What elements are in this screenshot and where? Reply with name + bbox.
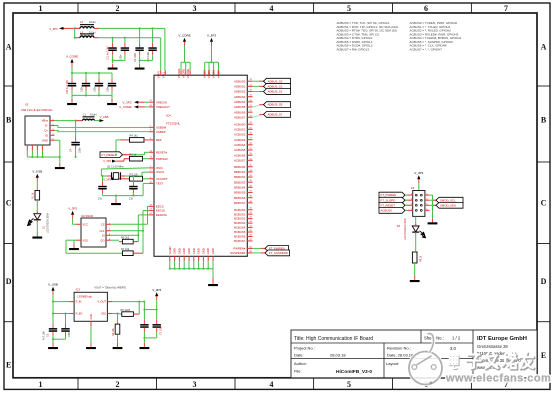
- wire P_EN rail: [52, 302, 69, 315]
- wire R1 to D1: [36, 200, 38, 214]
- IC IC2 pins: [76, 222, 111, 242]
- svg-text:C9 100n: C9 100n: [134, 52, 137, 62]
- svg-text:RESET#: RESET#: [156, 150, 167, 154]
- wire ADBUS tag 4: [253, 114, 264, 117]
- svg-text:ACBUS7 = *, *, GPIOH7: ACBUS7 = *, *, GPIOH7: [410, 47, 443, 51]
- svg-text:C11 4u7 16V: C11 4u7 16V: [107, 46, 110, 60]
- svg-text:L1: L1: [83, 113, 86, 117]
- ground cap bank A right: [135, 64, 145, 70]
- wire D2 to R9: [415, 234, 417, 251]
- wire right caps join: [144, 309, 158, 339]
- IC IC4 FT2232HL body: [154, 75, 247, 256]
- svg-text:ACBUS0: ACBUS0: [234, 122, 246, 126]
- ground right caps: [140, 343, 150, 349]
- connector K3 inner pads: [415, 194, 422, 211]
- svg-text:X3: X3: [25, 103, 29, 107]
- svg-text:DO: DO: [101, 238, 105, 242]
- ground bank B right: [107, 99, 117, 105]
- IC IC4 pin BCBUS6: [234, 234, 253, 238]
- svg-text:ADBUS3: ADBUS3: [234, 95, 246, 99]
- svg-text:R9 1k: R9 1k: [420, 255, 423, 262]
- net flag ADBUS_S2: [259, 89, 290, 95]
- svg-text:ADBUS4: ADBUS4: [234, 100, 246, 104]
- IC IC4 pin ADBUS7: [234, 115, 253, 119]
- net flag V_3P3 mini 2: [103, 177, 116, 181]
- capacitor C5: [43, 314, 58, 344]
- pin function notes column 1: [337, 21, 399, 51]
- svg-text:PWRSAV: PWRSAV: [156, 157, 168, 161]
- svg-text:VCORE: VCORE: [177, 68, 181, 78]
- wire V_USB to R1: [36, 182, 38, 191]
- svg-text:V_CORE: V_CORE: [178, 33, 190, 37]
- wire VSS to ground: [74, 240, 76, 244]
- wire V_3P3 to VCCIO pins: [205, 46, 219, 71]
- connector K3 left pin stubs: [408, 194, 413, 211]
- svg-text:E: E: [541, 351, 546, 360]
- svg-text:FT_RESET: FT_RESET: [102, 153, 117, 157]
- svg-text:V_3P3: V_3P3: [207, 33, 216, 37]
- connector X3 body: [25, 116, 50, 145]
- ground R9: [410, 276, 420, 282]
- svg-text:USB micro-B 4pin KMD3-Bu: USB micro-B 4pin KMD3-Bu: [21, 109, 53, 112]
- connector K3 right pin stubs: [425, 194, 430, 211]
- inductor L3: [75, 30, 99, 37]
- svg-text:V_USB: V_USB: [100, 115, 109, 119]
- svg-text:ADBUS_S5: ADBUS_S5: [268, 103, 283, 107]
- svg-text:GND: GND: [197, 248, 201, 254]
- wire ADBUS tag 2: [253, 91, 264, 93]
- power flag V_USB regulator: [48, 282, 58, 294]
- resistor R7: [66, 231, 143, 256]
- svg-text:V_OUT: V_OUT: [97, 300, 106, 304]
- IC IC4 pin BCBUS0: [234, 208, 253, 212]
- svg-text:D+: D+: [44, 129, 48, 133]
- wire crystal ground bus: [102, 175, 144, 199]
- svg-text:Q1 12.00 MHz: Q1 12.00 MHz: [107, 164, 124, 168]
- svg-text:ADBUS_S7: ADBUS_S7: [268, 113, 283, 117]
- svg-text:1 / 2: 1 / 2: [452, 336, 461, 341]
- svg-text:BDBUS1: BDBUS1: [234, 170, 246, 174]
- wire R7 to VSS: [65, 240, 67, 253]
- wire PWREN tag: [253, 247, 265, 249]
- watermark stamp circle: [409, 333, 442, 384]
- capacitor bank B C26: [95, 73, 103, 91]
- ground D1: [32, 233, 42, 239]
- svg-text:ADBUS7 = RI#, GPIOL3: ADBUS7 = RI#, GPIOL3: [337, 47, 370, 51]
- svg-text:ADBUS2: ADBUS2: [234, 90, 246, 94]
- svg-text:Grenzstrasse 28: Grenzstrasse 28: [477, 344, 508, 349]
- wire X3 GND pin: [55, 140, 61, 158]
- title block dividers: [291, 330, 473, 378]
- wire K3 to LED D2: [415, 216, 417, 225]
- svg-text:IC3: IC3: [76, 288, 81, 292]
- IC IC3 pins: [70, 300, 113, 326]
- LED D1: [28, 212, 50, 234]
- wire ADBUS tag 0: [253, 80, 264, 82]
- svg-text:ID: ID: [45, 133, 48, 137]
- crystal Q1: [101, 172, 142, 179]
- IC IC4 pin ADBUS3: [234, 95, 253, 99]
- IC IC4 pin BDBUS7: [234, 201, 253, 205]
- resistor R5: [111, 235, 139, 244]
- svg-text:IDT Europe GmbH: IDT Europe GmbH: [477, 336, 527, 342]
- svg-text:Layout:: Layout:: [386, 361, 399, 366]
- svg-text:ADBUS_S0: ADBUS_S0: [268, 79, 283, 83]
- wire V_USB to P_IN: [52, 295, 69, 303]
- svg-text:VREGIN: VREGIN: [156, 100, 167, 104]
- svg-text:VOUT = 700mVx(1+R6/R7): VOUT = 700mVx(1+R6/R7): [94, 286, 126, 290]
- svg-text:V_3P3: V_3P3: [103, 159, 111, 163]
- IC IC4 pin ACBUS2: [234, 133, 253, 137]
- svg-text:3.0: 3.0: [450, 346, 456, 351]
- ground bank B left: [67, 99, 77, 105]
- capacitor C8: [129, 176, 138, 201]
- svg-text:B: B: [541, 115, 547, 124]
- capacitor C6: [61, 314, 71, 340]
- ground cap bank A left: [108, 64, 118, 70]
- svg-text:TEST: TEST: [156, 182, 163, 186]
- watermark CJK text: [450, 353, 534, 369]
- IC IC4 pin VREGOUT: [149, 105, 170, 109]
- frame row letters left: [6, 42, 12, 369]
- power flag V_3P3 K3: [414, 171, 423, 183]
- svg-text:BDBUS7: BDBUS7: [234, 201, 246, 205]
- IC IC4 pin BCBUS2: [234, 217, 253, 221]
- IC IC4 pin USBDM: [149, 125, 167, 129]
- capacitor C9: [135, 28, 143, 55]
- connector X3 pins: [42, 119, 55, 143]
- power flag V_CORE above IC: [178, 33, 190, 45]
- IC IC4 pin VPHY: [157, 70, 161, 78]
- svg-text:SUSPEND#: SUSPEND#: [230, 251, 246, 255]
- svg-text:LP39850-adj: LP39850-adj: [78, 296, 93, 299]
- IC IC4 pin BDBUS5: [234, 191, 253, 195]
- IC IC4 pin BDBUS0: [234, 165, 253, 169]
- svg-text:VBus: VBus: [42, 119, 49, 123]
- IC IC4 pin ADBUS1: [234, 84, 253, 88]
- net flag FT_SUSPEND: [261, 250, 290, 256]
- svg-text:R2 1k: R2 1k: [130, 153, 137, 157]
- svg-text:Revision No.:: Revision No.:: [387, 345, 411, 350]
- resistor R1: [32, 191, 40, 201]
- wire bank B bottom rail: [72, 91, 112, 99]
- net flag FT_PWREN: [261, 246, 289, 252]
- svg-text:ADBUS6: ADBUS6: [234, 110, 246, 114]
- capacitor C13: [140, 310, 148, 343]
- svg-text:V_3P3: V_3P3: [122, 100, 131, 104]
- net flag V_3P3 to VREGIN: [122, 100, 148, 104]
- power flag V_3P3 regulator out: [152, 288, 161, 300]
- svg-text:100n: 100n: [120, 54, 123, 60]
- wire V_3P3 to VCC: [73, 219, 76, 225]
- svg-text:SMOD_SCL: SMOD_SCL: [440, 198, 456, 202]
- wire D1 to ground: [36, 222, 38, 233]
- wire cap bank A grounds: [112, 55, 153, 63]
- IC IC4 pin BCBUS5: [234, 230, 253, 234]
- capacitor C10: [148, 28, 156, 55]
- svg-text:7: 7: [504, 4, 508, 13]
- wire V_OUT: [112, 301, 145, 310]
- IC IC4 pin BDBUS2: [234, 175, 253, 179]
- svg-text:ACBUS6: ACBUS6: [234, 153, 246, 157]
- IC IC4 pin VCCOPT: [149, 177, 168, 181]
- wire V_3P3 into K3: [418, 183, 420, 191]
- wire FT_RESET to RESET pin: [115, 152, 149, 155]
- wire R4 left: [116, 140, 120, 155]
- svg-text:BCBUS4: BCBUS4: [234, 226, 246, 230]
- IC IC4 pin BCBUS1: [234, 212, 253, 216]
- svg-text:ADBUS0: ADBUS0: [234, 79, 246, 83]
- ground regulator: [86, 343, 96, 349]
- svg-text:R4 1k1: R4 1k1: [130, 134, 139, 138]
- IC IC4 pin ADBUS6: [234, 110, 253, 114]
- capacitor C7: [98, 176, 107, 201]
- svg-text:R1 1k: R1 1k: [32, 192, 35, 199]
- svg-text:FT_PWREN: FT_PWREN: [381, 193, 397, 197]
- wire rail after L2: [99, 28, 165, 71]
- wire V_3P3 feed: [64, 28, 76, 39]
- svg-text:ADJ: ADJ: [101, 312, 107, 316]
- ground divider: [113, 343, 123, 349]
- svg-text:4: 4: [270, 4, 274, 13]
- svg-text:E: E: [6, 360, 11, 369]
- svg-text:Date: 28.03.18: Date: 28.03.18: [387, 352, 414, 357]
- svg-text:VCCOPT: VCCOPT: [156, 177, 168, 181]
- frame column ticks bottom: [78, 378, 471, 390]
- svg-text:100n: 100n: [94, 86, 97, 92]
- IC IC4 pin ACBUS6: [234, 153, 253, 157]
- svg-text:VCCIO: VCCIO: [217, 70, 221, 79]
- svg-text:P_IN: P_IN: [76, 300, 82, 304]
- svg-text:ACBUS0: ACBUS0: [381, 209, 393, 213]
- svg-text:FT_SUSPEND: FT_SUSPEND: [269, 251, 288, 255]
- svg-text:GND: GND: [206, 248, 210, 254]
- svg-text:ACBUS5: ACBUS5: [234, 148, 246, 152]
- svg-text:A: A: [541, 42, 547, 51]
- svg-text:ADBUS7: ADBUS7: [234, 115, 246, 119]
- IC IC4 pin ACBUS0: [234, 122, 253, 126]
- svg-text:ADBUS5: ADBUS5: [234, 105, 246, 109]
- svg-text:2: 2: [116, 380, 120, 389]
- title block outline: [291, 330, 537, 378]
- svg-text:EEDATA: EEDATA: [156, 213, 167, 217]
- capacitor bank B C24: [68, 73, 76, 91]
- svg-text:BCBUS2: BCBUS2: [234, 217, 246, 221]
- IC IC4 pin ACBUS3: [234, 138, 253, 142]
- capacitor C14: [153, 305, 163, 338]
- svg-text:BDBUS2: BDBUS2: [234, 175, 246, 179]
- wire VBus: [55, 120, 77, 122]
- svg-text:ADBUS_S1: ADBUS_S1: [268, 84, 283, 88]
- svg-text:Title: High Communication IF B: Title: High Communication IF Board: [294, 336, 373, 342]
- wire bank B rail: [71, 67, 112, 74]
- svg-text:DI: DI: [102, 233, 105, 237]
- ground below IC: [208, 280, 218, 286]
- svg-text:BDBUS3: BDBUS3: [234, 180, 246, 184]
- wire TEST to ground: [143, 183, 149, 195]
- svg-text:V_3P3: V_3P3: [152, 288, 161, 292]
- svg-text:ACBUS3: ACBUS3: [234, 138, 246, 142]
- svg-text:VPLL: VPLL: [161, 71, 165, 78]
- svg-text:FT2232HL: FT2232HL: [166, 122, 181, 126]
- capacitor bank B C27: [108, 73, 116, 91]
- svg-text:ADBUS_S2: ADBUS_S2: [268, 90, 283, 94]
- svg-text:VCCIO: VCCIO: [207, 70, 211, 79]
- svg-text:VCORE: VCORE: [186, 68, 190, 78]
- wire V_CORE to VCORE pins: [181, 46, 190, 71]
- svg-text:5: 5: [347, 4, 351, 13]
- svg-text:VCC: VCC: [83, 222, 89, 226]
- svg-text:VCORE: VCORE: [182, 68, 186, 78]
- svg-text:1: 1: [39, 4, 43, 13]
- svg-text:BCBUS6: BCBUS6: [234, 235, 246, 239]
- svg-text:D: D: [541, 277, 547, 286]
- IC IC4 pin VREGIN: [149, 100, 167, 104]
- IC IC4 pin ADBUS0: [234, 79, 253, 83]
- svg-text:Date:: Date:: [294, 352, 304, 357]
- IC IC4 pin OSCO: [149, 170, 165, 174]
- net flag ADBUS_S7: [259, 112, 290, 118]
- wire R9 to ground: [414, 263, 416, 277]
- wire EEDATA: [111, 215, 149, 236]
- IC IC2 93C46 body: [81, 215, 106, 247]
- resistor R4: [120, 134, 149, 143]
- ground X3 shield: [55, 163, 65, 169]
- frame row ticks right: [537, 86, 550, 322]
- svg-text:R7 10k: R7 10k: [121, 247, 130, 251]
- IC IC4 pin EEDATA: [149, 213, 167, 217]
- pin function notes column 2: [410, 21, 462, 51]
- svg-text:3: 3: [193, 380, 197, 389]
- connector X3 label: [21, 103, 53, 112]
- frame column ticks top: [78, 3, 471, 13]
- svg-text:GND: GND: [173, 248, 177, 254]
- net flag ACBUS0 K3: [379, 208, 409, 214]
- svg-text:BCBUS1: BCBUS1: [234, 212, 246, 216]
- svg-text:D: D: [6, 277, 12, 286]
- svg-text:AGND: AGND: [168, 246, 172, 254]
- wire USB D- to IC: [55, 126, 149, 128]
- svg-text:GND: GND: [192, 248, 196, 254]
- wire regulator GND pin: [90, 326, 92, 343]
- IC IC4 pin VPLL: [161, 70, 165, 78]
- wire ADBUS tag 1: [253, 85, 264, 87]
- svg-text:3: 3: [193, 4, 197, 13]
- svg-text:LED GREEN 3MM: LED GREEN 3MM: [47, 213, 50, 233]
- IC IC4 pin BCBUS4: [234, 226, 253, 230]
- svg-text:V_USB: V_USB: [32, 169, 42, 173]
- svg-text:OSCO: OSCO: [156, 170, 165, 174]
- svg-text:SMOD_SDA: SMOD_SDA: [440, 203, 456, 207]
- capacitor bank B C25: [82, 73, 90, 91]
- svg-text:R5 2k2: R5 2k2: [121, 236, 130, 240]
- net flag ADBUS_S0: [259, 78, 290, 84]
- svg-text:BCBUS7: BCBUS7: [234, 239, 246, 243]
- svg-text:BDBUS0: BDBUS0: [234, 165, 246, 169]
- IC IC4 pin BDBUS4: [234, 185, 253, 189]
- net flag ADBUS_S5: [259, 102, 290, 108]
- IC IC4 pin ADBUS2: [234, 90, 253, 94]
- svg-text:PWREN#: PWREN#: [233, 247, 245, 251]
- svg-text:10uH: 10uH: [89, 30, 95, 34]
- capacitor bank B labels: [66, 80, 110, 94]
- svg-text:GND: GND: [211, 248, 215, 254]
- frame row letters right: [541, 42, 547, 360]
- svg-text:R8 10k: R8 10k: [112, 328, 115, 336]
- svg-text:V_3P3: V_3P3: [49, 27, 58, 31]
- net flag SMOD_SDA: [429, 202, 463, 208]
- wire OSCI: [101, 168, 148, 176]
- IC IC4 pin ADBUS4: [234, 100, 253, 104]
- IC IC4 pin PWREN#: [233, 246, 252, 250]
- wire USB D+ to IC: [55, 130, 149, 131]
- svg-text:ACBUS4: ACBUS4: [234, 143, 246, 147]
- svg-text:FT_RESET: FT_RESET: [381, 203, 396, 207]
- frame row ticks left: [4, 86, 13, 322]
- title block texts: [294, 336, 461, 375]
- IC IC4 VCORE pins: [177, 68, 190, 78]
- svg-text:HiComIFB_V3-0: HiComIFB_V3-0: [336, 369, 372, 375]
- IC IC4 pin BCBUS7: [234, 239, 253, 243]
- IC IC4 pin OSCI: [149, 166, 163, 170]
- IC IC4 pin BDBUS6: [234, 196, 253, 200]
- connector X3 shield pins: [27, 145, 60, 163]
- IC IC3 LP3985 body: [74, 288, 107, 322]
- svg-text:BDBUS5: BDBUS5: [234, 191, 246, 195]
- svg-text:C7 100n: C7 100n: [160, 325, 163, 335]
- svg-text:4u7 16V: 4u7 16V: [43, 331, 46, 340]
- power flag V_3P3 eeprom: [68, 206, 77, 218]
- IC IC4 pin SUSPEND#: [230, 251, 252, 255]
- svg-text:CLK: CLK: [99, 229, 104, 233]
- svg-text:C: C: [6, 198, 12, 207]
- IC IC4 pin BDBUS1: [234, 170, 253, 174]
- svg-text:10uH: 10uH: [89, 20, 95, 24]
- ground eeprom: [69, 244, 79, 250]
- svg-text:VCCIO: VCCIO: [212, 70, 216, 79]
- IC IC4 pin USBDP: [149, 130, 166, 134]
- wire left caps ground: [52, 338, 65, 340]
- svg-text:GND: GND: [182, 248, 186, 254]
- svg-text:28.03.18: 28.03.18: [330, 352, 346, 357]
- IC IC4 VCCIO pin labels: [203, 70, 221, 79]
- svg-text:4: 4: [270, 380, 274, 389]
- wire EECLK: [111, 211, 149, 232]
- svg-text:FT_SUSPD: FT_SUSPD: [381, 198, 396, 202]
- IC IC4 pin BDBUS3: [234, 180, 253, 184]
- svg-text:LED ORANGE 3MM: LED ORANGE 3MM: [404, 218, 407, 240]
- IC IC4 pin ADBUS5: [234, 105, 253, 109]
- IC IC4 name labels: [166, 114, 181, 126]
- svg-text:USBDP: USBDP: [156, 130, 166, 134]
- inductor L1: [76, 113, 100, 121]
- ground regulator caps: [48, 343, 58, 349]
- resistor R8 lower divider: [112, 314, 120, 338]
- svg-text:1: 1: [39, 380, 43, 389]
- net flag V_3P3 top left: [49, 27, 63, 31]
- svg-text:2: 2: [116, 4, 120, 13]
- ground crystal: [111, 199, 121, 205]
- svg-text:CS: CS: [101, 222, 105, 226]
- net flag V_CORE to VREGOUT: [119, 105, 149, 109]
- svg-text:GND: GND: [89, 314, 93, 320]
- svg-text:6: 6: [424, 4, 428, 13]
- capacitor C4 on VBus: [70, 121, 82, 158]
- svg-text:27p: 27p: [129, 198, 134, 201]
- svg-text:BCBUS0: BCBUS0: [234, 208, 246, 212]
- svg-text:100n: 100n: [81, 86, 84, 92]
- svg-text:Author:: Author:: [294, 361, 307, 366]
